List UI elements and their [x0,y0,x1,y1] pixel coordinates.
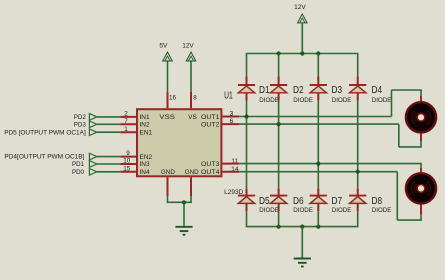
svg-text:DIODE: DIODE [372,97,392,104]
svg-text:VSS: VSS [159,114,175,121]
svg-text:VS: VS [188,114,197,121]
svg-text:OUT3: OUT3 [201,161,220,168]
svg-text:12V: 12V [294,4,306,11]
svg-text:IN1: IN1 [140,114,151,121]
svg-text:9: 9 [126,150,130,157]
svg-text:EN1: EN1 [140,129,153,136]
svg-text:IN3: IN3 [140,161,151,168]
svg-text:DIODE: DIODE [372,207,392,214]
svg-text:DIODE: DIODE [259,207,279,214]
svg-text:IN2: IN2 [140,122,151,129]
svg-text:D3: D3 [332,84,343,96]
svg-text:2: 2 [124,111,128,118]
svg-text:10: 10 [123,158,131,165]
svg-text:16: 16 [169,94,177,101]
svg-text:PD1: PD1 [72,161,85,168]
svg-text:IN4: IN4 [140,169,151,176]
svg-text:12V: 12V [182,43,194,50]
svg-text:1: 1 [124,126,128,133]
svg-text:OUT4: OUT4 [201,169,220,176]
svg-text:D1: D1 [259,84,270,96]
svg-text:OUT2: OUT2 [201,122,220,129]
svg-text:D8: D8 [372,195,383,207]
svg-text:OUT1: OUT1 [201,114,220,121]
svg-text:PD0: PD0 [72,169,85,176]
svg-text:PD5 [OUTPUT PWM OC1A]: PD5 [OUTPUT PWM OC1A] [4,129,86,136]
svg-text:D2: D2 [293,84,304,96]
svg-text:DIODE: DIODE [332,97,352,104]
svg-text:D4: D4 [372,84,383,96]
svg-text:GND: GND [161,169,175,176]
svg-text:DIODE: DIODE [332,207,352,214]
svg-text:U1: U1 [224,90,233,102]
svg-text:PD4[OUTPUT PWM OC1B]: PD4[OUTPUT PWM OC1B] [4,154,84,161]
svg-text:PD3: PD3 [74,121,87,128]
svg-text:5V: 5V [159,43,168,50]
svg-text:DIODE: DIODE [259,97,279,104]
svg-text:PD2: PD2 [74,114,87,121]
svg-text:DIODE: DIODE [293,207,313,214]
svg-text:D6: D6 [293,195,304,207]
svg-text:15: 15 [123,165,131,172]
svg-text:8: 8 [193,94,197,101]
svg-text:DIODE: DIODE [293,97,313,104]
svg-text:7: 7 [124,118,128,125]
svg-text:EN2: EN2 [140,154,153,161]
svg-text:D7: D7 [332,195,343,207]
svg-text:GND: GND [185,169,199,176]
svg-text:D5: D5 [259,195,270,207]
